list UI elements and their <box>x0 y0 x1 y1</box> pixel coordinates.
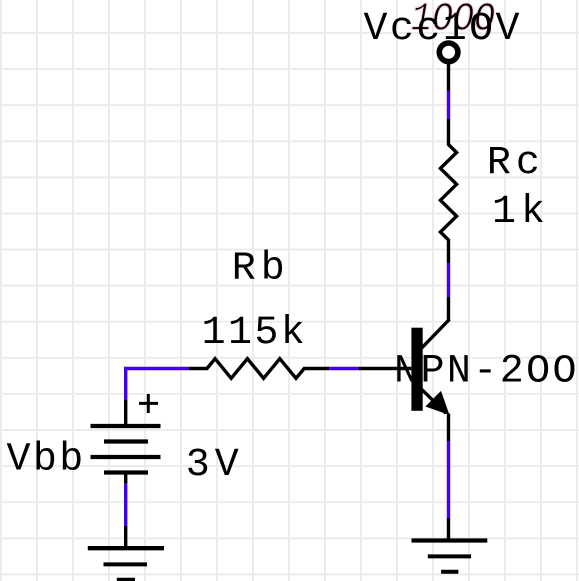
ground (emitter) <box>412 518 488 572</box>
wire Rb to Vbb <box>126 369 189 401</box>
node Vcc label <box>364 7 522 52</box>
label Vbb <box>7 437 86 482</box>
wire Rb to base <box>329 367 358 370</box>
label Rc <box>487 141 545 186</box>
svg-text:1k: 1k <box>492 190 550 235</box>
svg-text:Vbb: Vbb <box>7 437 86 482</box>
wire Rc to collector <box>447 263 450 297</box>
label Rb <box>232 247 290 292</box>
value 1k <box>492 190 550 235</box>
battery Vbb <box>91 400 161 484</box>
svg-text:NPN-2OO: NPN-2OO <box>394 350 579 395</box>
wire emitter to ground <box>447 441 450 518</box>
wire base lead <box>358 367 411 370</box>
transistor Q1 NPN <box>411 297 449 441</box>
svg-text:115k: 115k <box>202 311 308 356</box>
terminal Vcc <box>439 43 458 91</box>
wire Vbb to ground <box>124 484 127 526</box>
value 3V <box>186 443 244 488</box>
svg-text:3V: 3V <box>186 443 244 488</box>
battery plus sign <box>139 394 158 413</box>
value 115k <box>202 311 308 356</box>
resistor Rc <box>440 119 456 263</box>
ground (Vbb) <box>88 526 164 580</box>
svg-text:Rc: Rc <box>487 141 545 186</box>
node Vcc voltage annotation (pink outline) <box>411 0 495 43</box>
resistor Rb <box>188 359 329 379</box>
svg-text:Rb: Rb <box>232 247 290 292</box>
wire Vcc to Rc <box>447 91 450 120</box>
label NPN-200 <box>394 350 579 395</box>
